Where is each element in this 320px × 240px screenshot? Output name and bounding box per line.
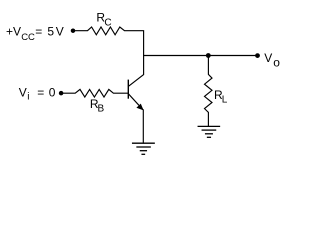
svg-text:V: V xyxy=(56,24,64,38)
svg-text:=: = xyxy=(35,24,42,38)
svg-text:V: V xyxy=(19,86,27,100)
svg-text:i: i xyxy=(27,91,29,102)
svg-text:B: B xyxy=(98,104,105,115)
svg-text:+V: +V xyxy=(6,24,21,38)
svg-text:CC: CC xyxy=(21,32,35,43)
svg-text:0: 0 xyxy=(49,86,56,100)
svg-text:o: o xyxy=(273,56,280,70)
svg-text:V: V xyxy=(264,51,272,65)
svg-text:=: = xyxy=(37,86,44,100)
svg-text:5: 5 xyxy=(47,24,54,38)
svg-text:L: L xyxy=(222,95,228,106)
svg-text:C: C xyxy=(104,17,111,28)
